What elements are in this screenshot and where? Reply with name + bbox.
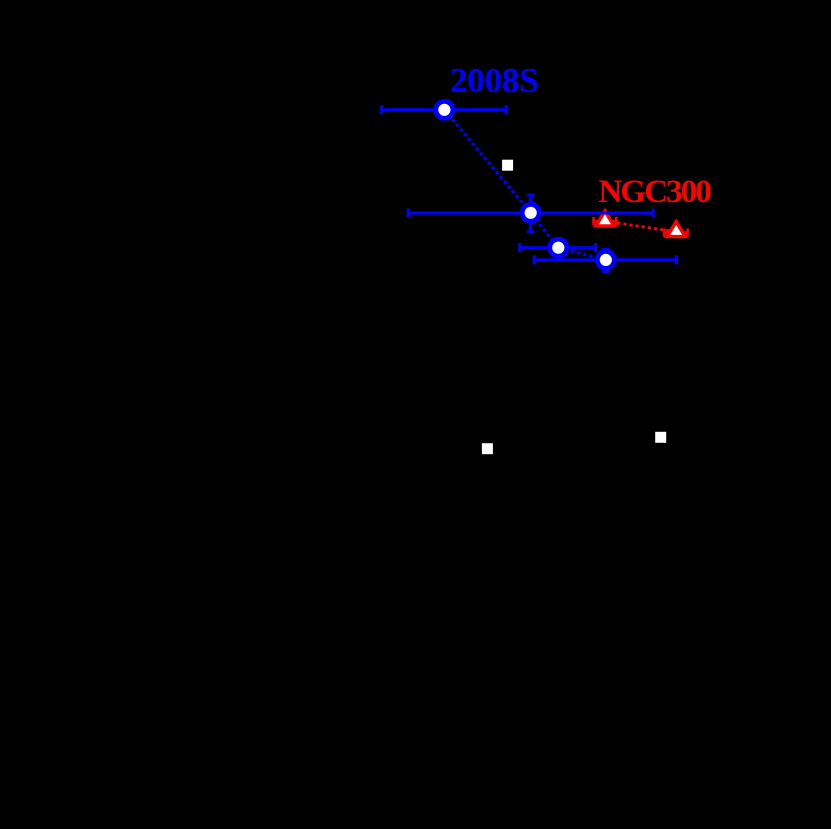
- svg-text:2008S: 2008S: [450, 61, 538, 100]
- svg-text:NGC300: NGC300: [599, 174, 712, 210]
